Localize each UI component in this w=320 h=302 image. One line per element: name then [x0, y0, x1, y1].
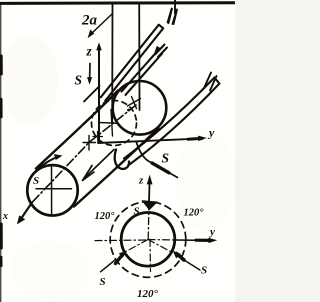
- origin cross: [83, 136, 96, 151]
- paper background: [0, 0, 235, 302]
- hook broken end of strip C: [115, 150, 129, 169]
- svg-text:S: S: [100, 276, 106, 288]
- left edge blob 2: [0, 99, 3, 117]
- strip A (ray bar): [101, 25, 163, 101]
- inset S top arrowhead: [143, 201, 158, 210]
- inset centerline down: [149, 240, 152, 272]
- left edge scan line: [0, 4, 2, 302]
- svg-text:z: z: [86, 44, 93, 59]
- left edge blob 1: [0, 56, 3, 74]
- x axis dash-dot: [32, 105, 136, 203]
- svg-text:120°: 120°: [184, 208, 205, 219]
- z axis: [98, 47, 100, 143]
- inset ray down-left: [124, 240, 148, 253]
- svg-text:S: S: [134, 206, 140, 218]
- svg-text:y: y: [207, 126, 215, 140]
- cylinder top outline: [36, 91, 118, 169]
- svg-text:S: S: [201, 265, 207, 277]
- svg-text:S: S: [33, 175, 39, 187]
- svg-text:x: x: [2, 211, 8, 222]
- cross small near origin: [93, 132, 103, 142]
- strip B break ticks: [156, 45, 168, 58]
- inset ray down-right: [148, 240, 172, 253]
- svg-text:y: y: [208, 226, 215, 238]
- vertical projection line v1: [111, 4, 113, 122]
- connector curve: [137, 143, 149, 161]
- svg-text:120°: 120°: [137, 288, 159, 300]
- svg-text:S: S: [75, 73, 83, 88]
- svg-text:2a: 2a: [81, 13, 98, 29]
- bottom circle centerline vertical: [51, 167, 53, 215]
- strip A break ticks: [168, 9, 177, 24]
- arrowhead on axis at circle right: [85, 150, 114, 178]
- svg-text:z: z: [138, 175, 144, 187]
- vertical stub top right: [174, 0, 176, 14]
- strip B (ray bar): [122, 50, 162, 95]
- break ticks top right: [169, 9, 178, 25]
- top border line: [0, 1, 235, 5]
- S arrow upper left: [89, 64, 91, 80]
- svg-text:120°: 120°: [95, 211, 116, 222]
- strip C (ray bar): [124, 78, 220, 165]
- big circle center dot: [127, 109, 130, 112]
- big circle: [113, 81, 167, 135]
- bottom circle centerline horizontal: [36, 188, 72, 190]
- mid dashed circle: [92, 101, 137, 146]
- stray ray segment: [84, 86, 100, 102]
- inset solid circle: [121, 213, 175, 267]
- 2a leader arrow: [91, 14, 112, 34]
- svg-text:S: S: [162, 151, 170, 166]
- inset dashed circle: [110, 202, 186, 278]
- big circle center cross: [128, 97, 141, 109]
- inset centerline left: [95, 239, 148, 242]
- cross mid: [99, 110, 119, 137]
- y axis: [98, 139, 200, 143]
- S arrow on bottom circle: [40, 157, 58, 167]
- cylinder bottom outline: [74, 128, 159, 207]
- left edge blob 3: [0, 224, 3, 248]
- inset z axis: [147, 203, 150, 239]
- vertical projection line v2: [138, 4, 140, 110]
- left edge blob 4: [0, 257, 2, 266]
- S ray down-right: [148, 161, 178, 178]
- x axis arrow: [21, 203, 33, 220]
- inset y axis: [148, 239, 175, 242]
- strip C break ticks: [205, 73, 217, 91]
- strip B end wedge: [154, 47, 162, 57]
- bottom circle: [27, 165, 77, 215]
